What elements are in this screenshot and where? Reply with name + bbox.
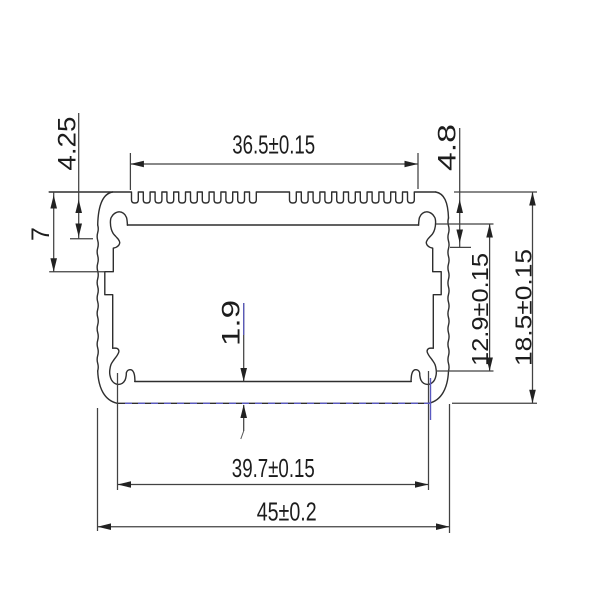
left outer wall (wavy sketch line) [97,225,98,371]
top-right outer corner arc [436,192,449,218]
right outer wall (wavy sketch line) [448,218,449,371]
dimension 45±0.2: extension lines, dimension line, arrows, text [97,408,99,531]
inner ceiling line [127,224,418,226]
bottom-left outer corner arc [98,371,118,403]
dimension 7: dimension line, extension line, arrows, rotated text [53,192,55,272]
svg-text:45±0.2: 45±0.2 [257,497,317,527]
dimension 4.25: leader line, tick, arrows, rotated text [78,113,80,239]
dimension 1.9: leaders, arrows, rotated text [243,303,245,382]
svg-text:7: 7 [27,227,55,241]
svg-text:18.5±0.15: 18.5±0.15 [511,249,537,366]
bottom-left wall hook, screw boss and floor hook [110,348,135,384]
bottom-right wall hook, screw boss and floor hook [411,348,436,384]
dimension 4.8: leader line, tick, arrows, rotated text [459,128,461,248]
svg-text:1.9: 1.9 [218,300,246,346]
top-left screw boss and left inner wall with groove [105,212,128,348]
1.9 leader tail flick [241,431,244,439]
svg-text:4.25: 4.25 [54,117,82,171]
svg-text:12.9±0.15: 12.9±0.15 [467,253,493,366]
top-right screw boss and right inner wall with groove [419,212,442,348]
svg-text:36.5±0.15: 36.5±0.15 [232,130,315,160]
blue vertical highlight at bottom-right boss [430,378,432,420]
blue highlight on 1.9 leader [243,303,245,335]
dimension 18.5±0.15: extension lines, dimension line, arrows, rotated text [454,191,537,193]
top-left outer corner arc [98,192,113,225]
inner floor line [135,381,412,383]
svg-text:4.8: 4.8 [434,124,462,171]
dimension 12.9±0.15: extension lines, dimension line, arrows, rotated text [436,223,494,225]
bottom outer edge [117,402,428,404]
finned top edge of extrusion profile [49,192,436,203]
svg-text:39.7±0.15: 39.7±0.15 [232,453,315,483]
blue dashed highlight line on bottom edge [125,402,430,404]
dimension 36.5±0.15 top: extension lines, dimension line, arrows, text [129,153,131,190]
bottom-right outer corner arc [429,371,449,403]
dimension 39.7±0.15: extension lines, dimension line, arrows, text [117,373,119,490]
